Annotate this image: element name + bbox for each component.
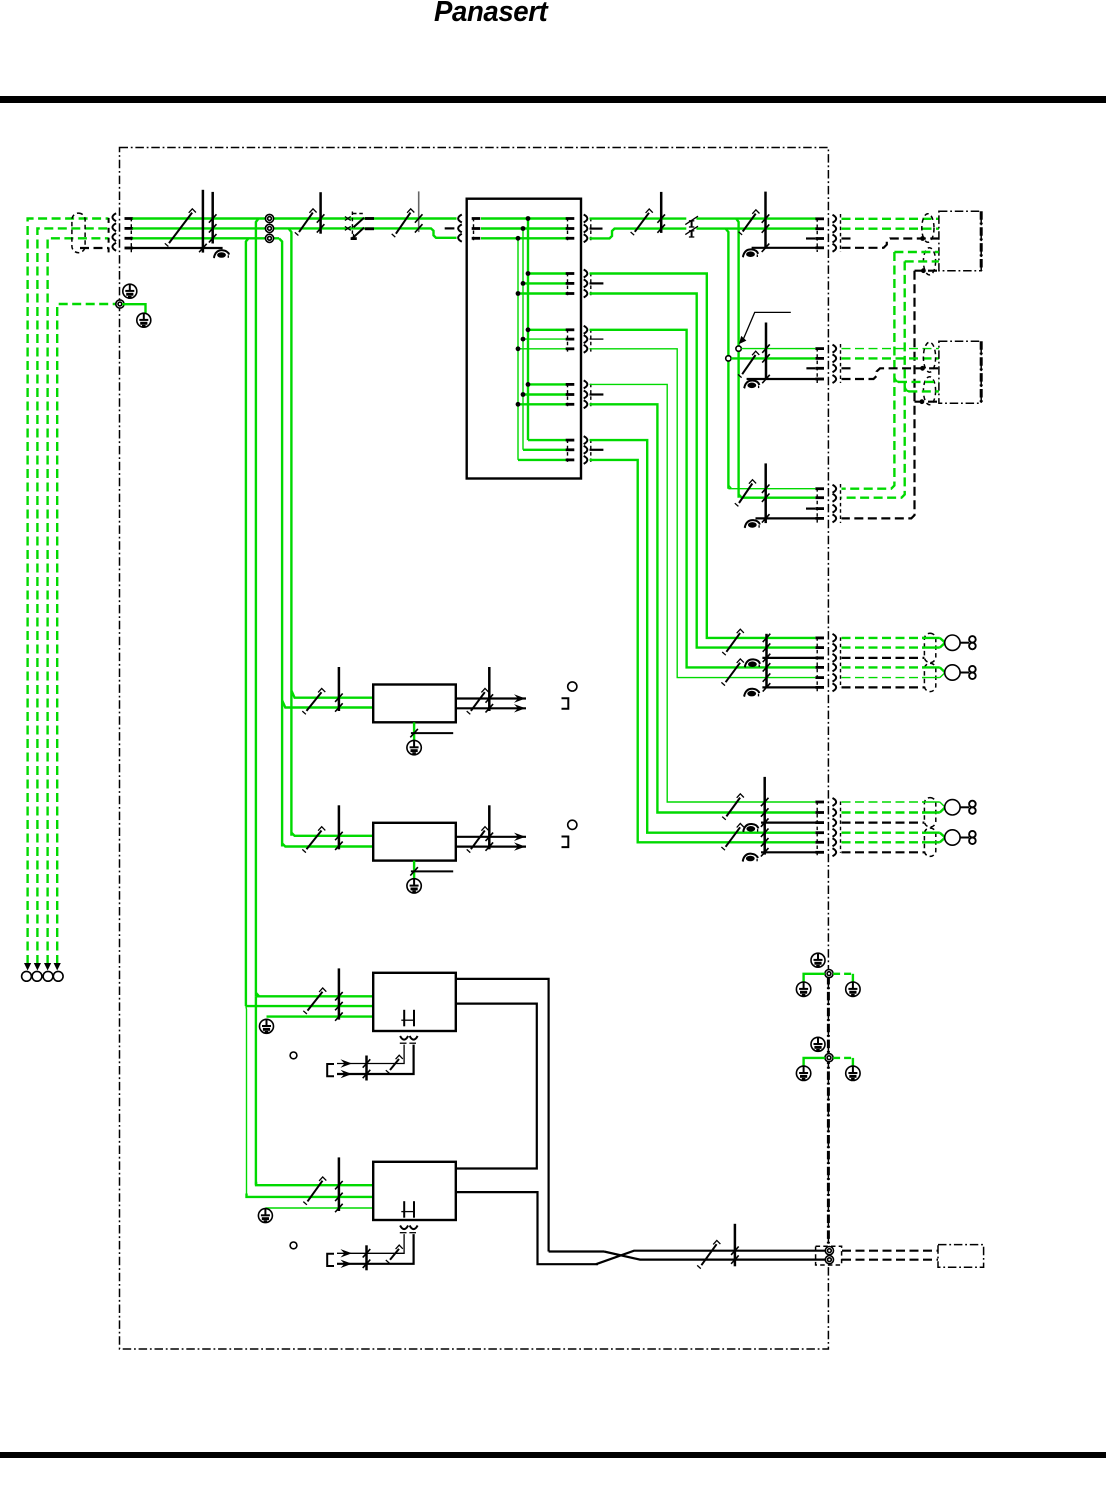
riser from L3 end (green) bbox=[279, 238, 282, 846]
breaker CB3 link bar bbox=[660, 192, 663, 233]
DR1 reference bubble bbox=[290, 1052, 297, 1059]
bonding wire dashed part (green) bbox=[833, 1057, 853, 1059]
CN4 motor leads (dashed) bbox=[842, 637, 925, 639]
motor plug shell B1 (dashed capsule) bbox=[924, 798, 935, 827]
earth stud symbol (top) bbox=[811, 953, 825, 967]
motor M-A1 shaft stub bbox=[960, 642, 969, 644]
J4 return lead b (green dashed) bbox=[905, 387, 910, 392]
switch S3 blade bbox=[742, 355, 755, 374]
contactor K1 base mark bbox=[353, 234, 355, 239]
interlock symbol on CN2 neutral bbox=[747, 383, 756, 389]
control box input contacts bbox=[458, 215, 462, 223]
external signal lead 2 (black dashed) bbox=[842, 1259, 938, 1261]
branch riser V1 (green) bbox=[736, 219, 738, 346]
motor M-B2 shaft stub bbox=[960, 837, 969, 839]
neutral wire N inside panel (black) bbox=[126, 247, 223, 249]
drive unit DR1 input wire 1 (green) bbox=[256, 995, 373, 997]
PS2 input switch blade bbox=[307, 831, 322, 850]
group 2 centre-tap stub bbox=[590, 282, 604, 284]
neutral wire to CN2 (black) bbox=[747, 378, 824, 380]
bonding wire (green) bbox=[804, 1058, 825, 1066]
return riser a (green dashed) bbox=[842, 252, 895, 489]
secondary feeder 5 (thin green) bbox=[590, 384, 816, 802]
DR1 encoder bracket bbox=[327, 1064, 334, 1076]
branch riser from L2 (green) bbox=[289, 228, 292, 835]
power unit PS2 input wires (green) bbox=[291, 833, 373, 836]
incoming mains wire L1 (green dashed) bbox=[28, 219, 109, 965]
group 5 centre-tap stub bbox=[590, 449, 604, 451]
connector CN0 socket contacts bbox=[108, 218, 110, 223]
connector CN2 socket contacts bbox=[833, 345, 837, 353]
terminal block TB2 outline (dashed) bbox=[816, 1246, 842, 1265]
CN2 lead 2 (green dashed) bbox=[842, 357, 939, 359]
PS2 output wires (black) bbox=[456, 836, 526, 838]
thermal contact pair bbox=[685, 216, 698, 224]
branch riser from L1 to sub-feed B (green) bbox=[256, 219, 259, 997]
motor B2 neutral wire (black) bbox=[761, 851, 824, 853]
motor B1 neutral wire (black) bbox=[761, 821, 824, 823]
CN2 lead 3 stub (black dashed) bbox=[842, 367, 853, 369]
T1 input pin headers bbox=[472, 217, 481, 220]
DR2 encoder arrows bbox=[341, 1249, 353, 1257]
connector CN5 pin headers bbox=[815, 801, 824, 804]
neutral wire to CN3 (black) bbox=[756, 517, 824, 519]
PS1 output link bar bbox=[488, 667, 491, 711]
DR1 encoder switch blade bbox=[390, 1059, 399, 1070]
DR2 encoder wire thick (black) bbox=[337, 1234, 414, 1264]
unused input pin stub bbox=[445, 227, 455, 229]
DR1 bottom plug contacts bbox=[400, 1036, 408, 1040]
wire M1 to CN2 (thin green) bbox=[741, 348, 815, 350]
enclosure boundary (dash-dot frame) bbox=[120, 148, 829, 1350]
phase terminals TB1 (double-ring) bbox=[265, 214, 273, 222]
motor M-B1 winding mark bbox=[969, 801, 976, 808]
boundary terminal TB2 upper bbox=[825, 1247, 833, 1255]
DR1 input switch blade bbox=[308, 992, 323, 1011]
interlock symbol on neutral bbox=[217, 252, 226, 258]
motor M-A2 shaft stub bbox=[960, 672, 969, 674]
motor M-A2 body bbox=[945, 665, 960, 680]
motor plug shell A1 (dashed capsule) bbox=[924, 633, 935, 662]
switch S2 blade bbox=[743, 214, 756, 232]
DR1 input link bar bbox=[338, 968, 341, 1019]
DR2 input earth symbol bbox=[258, 1209, 272, 1223]
connector CN3 pin headers bbox=[815, 487, 824, 490]
chassis earth left bbox=[796, 982, 810, 996]
incoming mains wire L2 (green dashed) bbox=[37, 228, 108, 964]
motor A2 neutral wire (black) bbox=[762, 686, 824, 688]
DR2 output wire B (black) bbox=[456, 1192, 598, 1264]
supply cable arrowheads bbox=[24, 963, 31, 971]
T1 secondary winding group 4 wires (green) bbox=[528, 383, 566, 385]
CN1 lead 1 (green dashed) bbox=[842, 218, 939, 220]
T1 secondary winding group 3 wires (green) bbox=[528, 329, 566, 331]
chassis earth symbol E2 bbox=[137, 313, 151, 327]
PS1 input link bar bbox=[338, 667, 341, 711]
breaker CB2 blade bbox=[396, 213, 411, 234]
motor group A link bar bbox=[765, 634, 768, 689]
wire V2 to CN3 (thin green) bbox=[728, 488, 731, 490]
interlock symbol A1 bbox=[748, 661, 757, 667]
connector CN1 pin headers bbox=[815, 217, 824, 220]
interlock symbol A2 bbox=[747, 691, 756, 697]
receptacle J4 shell (dashed oval) bbox=[923, 377, 935, 405]
connector CN1 socket contacts bbox=[833, 215, 837, 223]
PS2 output switch blade bbox=[471, 831, 485, 850]
J4 return lead a (green dashed) bbox=[894, 377, 899, 382]
earth link wire (green) bbox=[122, 304, 146, 313]
secondary feeder 2 (green) bbox=[590, 294, 816, 648]
J2 return lead a (green dashed) bbox=[894, 251, 939, 253]
secondary feeder 7 (green) bbox=[590, 440, 816, 833]
secondary feeder 8 (green) bbox=[590, 460, 816, 842]
PS2 reference bubble bbox=[568, 820, 577, 829]
feeder wire F1 (green) bbox=[590, 217, 687, 219]
power unit PS2 box bbox=[373, 823, 456, 861]
DR1 earth wire (green) bbox=[267, 1015, 374, 1017]
feeder wire F2 with step (green) bbox=[590, 229, 687, 239]
motor group B breaker blade 2 bbox=[726, 827, 741, 847]
PS1 output switch blade bbox=[471, 692, 485, 711]
DR2 encoder wire thin (black) bbox=[337, 1234, 404, 1253]
DR1 encoder link bar bbox=[365, 1056, 368, 1081]
motor plug shell A2 (dashed capsule) bbox=[924, 663, 935, 691]
motor group B link bar bbox=[763, 777, 766, 855]
contactor K1 fixed contacts bbox=[365, 217, 374, 220]
DR2 reference bubble bbox=[290, 1242, 297, 1249]
connector CN5 socket contacts bbox=[833, 798, 837, 806]
DR1 thin riser continuation (green thin) bbox=[245, 1006, 248, 1197]
group 1 output contacts bbox=[584, 215, 588, 223]
top rule bar bbox=[0, 96, 1106, 103]
drive unit DR2 box bbox=[373, 1162, 456, 1220]
secondary feeder 6 (green) bbox=[590, 404, 816, 812]
CN2 spare pin stub bbox=[806, 367, 815, 369]
DR1 output wire A (black) bbox=[456, 979, 549, 1252]
group 4 centre-tap stub bbox=[590, 393, 604, 395]
breaker CB1 link bar bbox=[319, 192, 322, 234]
bonding wire dashed part (green) bbox=[833, 973, 853, 975]
CN5 motor leads (dashed) bbox=[842, 801, 925, 803]
breaker CB2 link bar bbox=[418, 191, 420, 232]
wire M2 to CN2 (green) bbox=[731, 357, 815, 359]
PS1 output arrows bbox=[514, 694, 526, 702]
PS2 earth symbol bbox=[407, 879, 421, 893]
motor M-A1 feed convergence bbox=[922, 637, 940, 639]
switch S1 link bar B bbox=[211, 192, 214, 244]
PS2 earth lead (green) bbox=[413, 861, 415, 879]
T1 secondary winding group 5 wires (green) bbox=[528, 439, 566, 441]
external signal lead 1 (black dashed) bbox=[842, 1250, 938, 1252]
contactor K1 crossed marks bbox=[345, 217, 351, 221]
motor group B breaker blade 1 bbox=[726, 798, 740, 817]
power unit PS1 box bbox=[373, 685, 456, 723]
phase wire L1 inside panel (green) bbox=[133, 217, 457, 219]
PS2 output link bar bbox=[488, 805, 491, 849]
plug P1 body (dashed shell) bbox=[72, 213, 85, 253]
PS1 earth symbol bbox=[407, 740, 421, 754]
contactor K1 auxiliary dashes bbox=[353, 213, 365, 215]
group 5 output pin headers bbox=[566, 439, 575, 442]
DR1 encoder arrows bbox=[341, 1059, 353, 1067]
drive unit DR2 input wire 2 (green) bbox=[247, 1194, 374, 1197]
T1 internal bus risers (green) bbox=[527, 219, 529, 441]
DR2 bottom plug contacts bbox=[400, 1226, 408, 1230]
signal wire crossover X1 bbox=[549, 1250, 604, 1252]
incoming earth wire PE (green dashed) bbox=[57, 304, 117, 964]
manual switch terminal M1 bbox=[736, 346, 741, 351]
PS2 output arrows bbox=[514, 833, 526, 841]
drive unit DR2 input wire 1 (green) bbox=[256, 1182, 373, 1185]
DR1 riser continuation from input1 (green) bbox=[255, 996, 257, 1185]
J2 return lead c (black dashed) bbox=[915, 270, 939, 272]
DR2 input link bar bbox=[338, 1157, 341, 1211]
switch S5 link bar bbox=[734, 1224, 737, 1267]
motor M-B1 body bbox=[945, 800, 960, 815]
switch S4 blade bbox=[739, 484, 752, 504]
contactor K1 linkage (dashed) bbox=[351, 212, 353, 240]
connector CN4 socket contacts bbox=[833, 634, 837, 642]
PS1 chassis bar bbox=[411, 732, 453, 734]
secondary feeder 4 (thin green) bbox=[590, 349, 816, 678]
motor M-B1 shaft stub bbox=[960, 806, 969, 808]
motor M-A1 body bbox=[945, 635, 960, 650]
group 3 centre-tap stub bbox=[590, 338, 604, 340]
wire V1 to CN3 (green) bbox=[739, 494, 816, 497]
neutral wire to CN1 (black) bbox=[752, 247, 824, 249]
group 4 output pin headers bbox=[566, 383, 575, 386]
PS1 output wires (black) bbox=[456, 697, 526, 699]
boundary earth terminal bbox=[825, 970, 833, 978]
branch riser V2 (green) bbox=[726, 229, 729, 356]
group 5 output contacts bbox=[584, 436, 588, 444]
motor plug shell B2 (dashed capsule) bbox=[924, 828, 935, 856]
DR1 output wire B (black) bbox=[456, 1004, 537, 1169]
main disconnect switch S1 blade bbox=[169, 213, 192, 244]
power unit PS1 input wires (green) bbox=[291, 691, 373, 698]
CN1 lead 4 (black dashed, stepped) bbox=[842, 239, 939, 248]
return riser b (green dashed) bbox=[842, 261, 905, 497]
motor M-A1 winding mark bbox=[969, 636, 976, 643]
motor A1 neutral wire (black) bbox=[762, 657, 824, 659]
CN1 spare pin stub bbox=[806, 237, 815, 239]
manual switch callout leader bbox=[744, 312, 791, 338]
CN1 lead 2 (green dashed) bbox=[842, 227, 939, 229]
contactor K1 contact blades bbox=[354, 218, 365, 227]
group 1 output pin headers bbox=[566, 217, 575, 220]
CN2 lead 1 (thin green dashed) bbox=[842, 348, 939, 350]
protective-earth bus segment on right boundary (bold) bbox=[827, 976, 830, 1246]
PS1 reference bracket bbox=[562, 698, 569, 709]
motor M-A2 feed convergence bbox=[922, 666, 940, 668]
receptacle J3 shell (dashed oval) bbox=[923, 342, 935, 372]
earth stud symbol (top) bbox=[811, 1037, 825, 1051]
device box D1 (dash-dot) bbox=[939, 211, 981, 270]
PS1 earth lead (green) bbox=[413, 722, 415, 740]
connector CN3 socket contacts bbox=[833, 485, 837, 493]
group 2 output contacts bbox=[584, 270, 588, 278]
T1 secondary winding group 2 wires (green) bbox=[528, 272, 566, 274]
CN1 lead 3 stub (black dashed) bbox=[842, 237, 853, 239]
DR2 encoder switch blade bbox=[390, 1249, 399, 1260]
Panasert logotype bbox=[434, 0, 681, 29]
DR2 earth wire (green thin) bbox=[265, 1207, 373, 1209]
secondary feeder 3 (green) bbox=[590, 330, 816, 668]
phase wire L3 inside panel (green) bbox=[133, 237, 280, 239]
supply source terminals bbox=[22, 971, 32, 981]
CN3 spare pin stub bbox=[806, 508, 815, 510]
PS2 reference bracket bbox=[562, 837, 569, 848]
boundary earth terminal bbox=[825, 1054, 833, 1062]
connector CN0 pin headers (inside panel) bbox=[125, 217, 134, 220]
boundary terminal TB2 lower bbox=[825, 1256, 833, 1264]
drive unit DR1 box bbox=[373, 973, 456, 1031]
chassis earth left bbox=[796, 1066, 810, 1080]
receptacle J2 shell (dashed oval) bbox=[923, 248, 935, 275]
switch S2 link bar bbox=[764, 192, 767, 249]
DR1 internal coupling symbol bbox=[403, 1010, 405, 1027]
control transformer box T1 bbox=[467, 199, 581, 479]
drive unit DR1 input wire 2 (green) bbox=[246, 1005, 373, 1007]
bottom rule bar bbox=[0, 1452, 1106, 1458]
PS2 chassis bar bbox=[411, 870, 453, 872]
external device box D3 (dash-dot) bbox=[938, 1245, 984, 1268]
group 2 output pin headers bbox=[566, 272, 575, 275]
interlock symbol on CN1 neutral bbox=[746, 251, 755, 257]
group 3 output pin headers bbox=[566, 328, 575, 331]
device box D2 (dash-dot) bbox=[939, 341, 981, 403]
manual switch terminal M2 bbox=[726, 356, 731, 361]
connector CN4 pin headers bbox=[815, 637, 824, 640]
motor M-B1 feed convergence bbox=[922, 801, 940, 803]
plug P1 neutral lead (black dashed) bbox=[80, 247, 109, 249]
connector CN2 pin headers bbox=[815, 347, 824, 350]
chamfer at DR1 input 1 bbox=[256, 993, 259, 997]
bus junction dots bbox=[526, 216, 531, 221]
interlock symbol B1 bbox=[746, 826, 755, 832]
secondary feeder 1 (green) bbox=[590, 274, 816, 638]
motor M-B2 winding mark bbox=[969, 831, 976, 838]
bonding wire (green) bbox=[804, 974, 825, 982]
motor M-A2 winding mark bbox=[969, 666, 976, 673]
J2 return lead b (green dashed) bbox=[905, 260, 939, 262]
DR1 encoder wire thin (black) bbox=[337, 1045, 404, 1064]
incoming mains wire L3 (green dashed) bbox=[48, 238, 109, 964]
switch S5 blade bbox=[701, 1244, 716, 1265]
motor M-B2 body bbox=[945, 830, 960, 845]
group 4 output contacts bbox=[584, 380, 588, 388]
earth terminal E0 on left boundary bbox=[116, 300, 124, 308]
PS1 reference bubble bbox=[568, 682, 577, 691]
circuit breaker CB1 blade bbox=[299, 213, 313, 233]
chassis earth right bbox=[846, 1066, 860, 1080]
DR2 encoder bracket bbox=[327, 1254, 334, 1266]
interlock symbol B2 bbox=[746, 856, 755, 862]
return riser c (black dashed) bbox=[842, 271, 915, 519]
switch S4 link bar bbox=[764, 463, 767, 523]
motor group A breaker blade 2 bbox=[726, 663, 741, 683]
branch riser from L3 to sub-feed A (green) bbox=[246, 238, 249, 1006]
switch S3 link bar bbox=[765, 323, 768, 380]
DR2 encoder link bar bbox=[365, 1245, 368, 1270]
phase wire L2 inside panel (green) bbox=[133, 228, 457, 237]
T1 primary bus wires (green) bbox=[481, 217, 566, 219]
DR2 internal coupling symbol bbox=[403, 1201, 405, 1218]
DR2 input switch blade bbox=[308, 1181, 323, 1202]
chassis earth symbol E1 bbox=[123, 284, 137, 298]
motor group A breaker blade 1 bbox=[726, 633, 740, 652]
group 1 centre-tap stub bbox=[590, 228, 603, 230]
J4 return lead c (black dashed) bbox=[915, 401, 939, 403]
motor M-B2 feed convergence bbox=[922, 832, 940, 834]
chassis earth right bbox=[846, 982, 860, 996]
receptacle J1 shell (dashed oval) bbox=[922, 214, 934, 243]
breaker CB3 blade bbox=[635, 213, 649, 232]
DR1 encoder wire thick (black) bbox=[337, 1045, 414, 1074]
group 3 output contacts bbox=[584, 326, 588, 334]
PS2 input link bar bbox=[338, 805, 341, 849]
switch S1 link bar A bbox=[202, 190, 205, 253]
DR1 input earth symbol bbox=[260, 1019, 274, 1033]
PS1 input switch blade bbox=[307, 692, 322, 711]
CN2 lead 4 (black dashed, stepped) bbox=[842, 368, 939, 379]
interlock symbol on CN3 neutral bbox=[748, 522, 757, 528]
